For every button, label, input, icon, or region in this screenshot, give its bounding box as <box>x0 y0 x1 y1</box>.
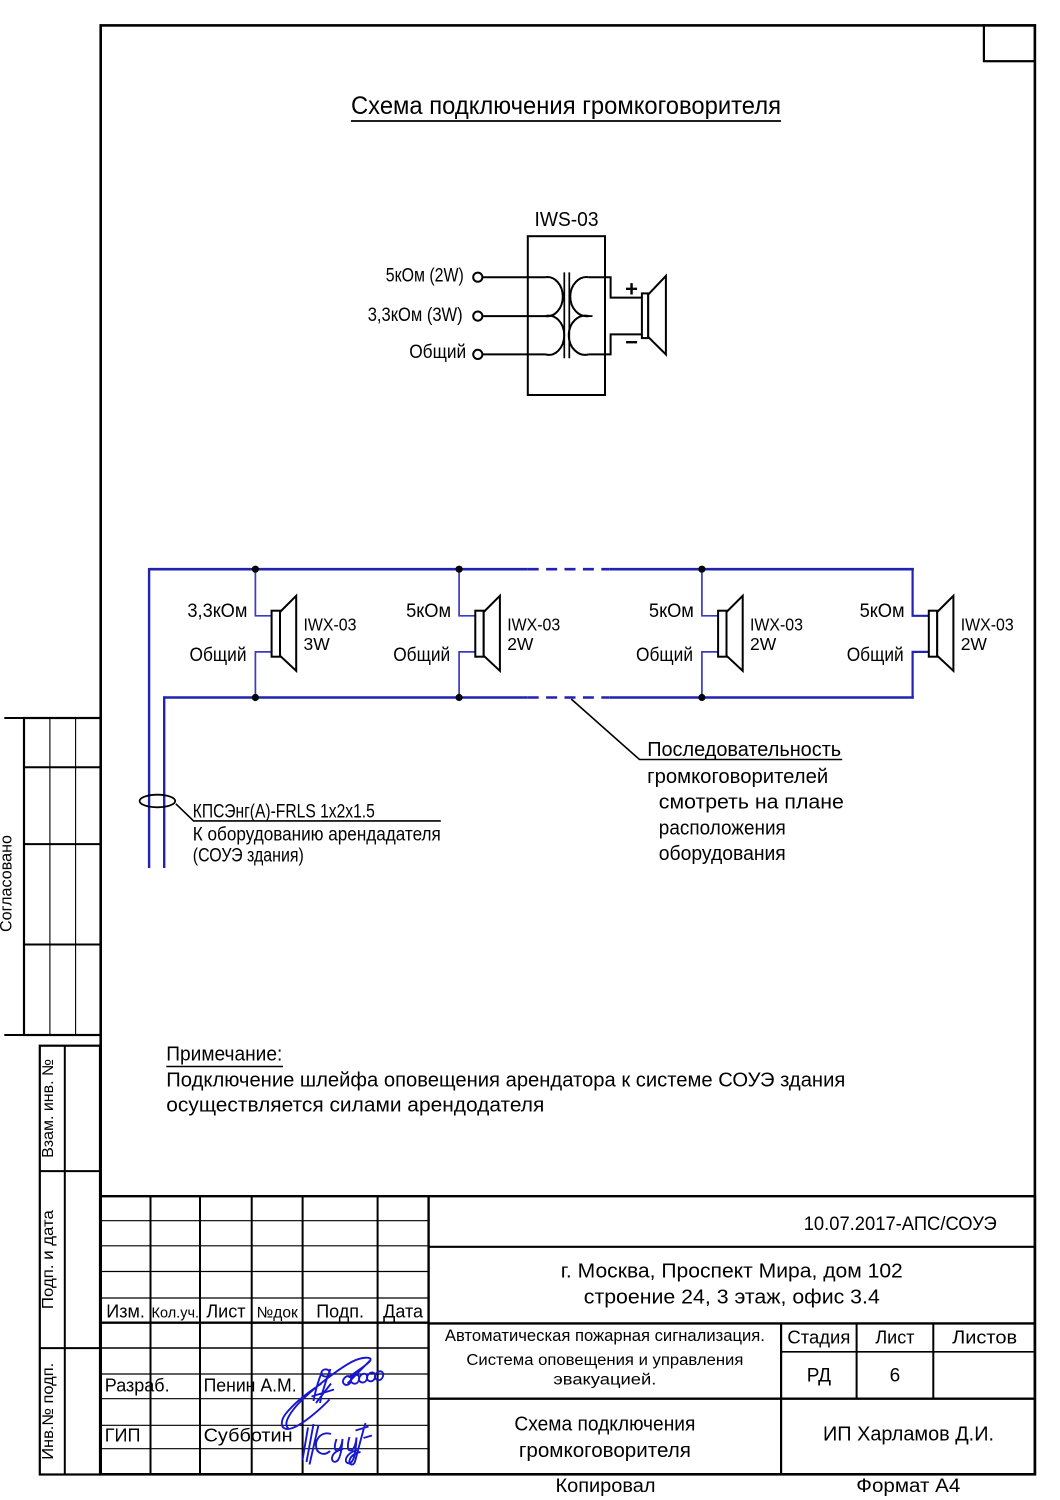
title block right part dividers <box>429 1247 1035 1475</box>
junction node LS2 top <box>456 566 463 573</box>
signature Пенин <box>282 1358 383 1429</box>
svg-text:эвакуацией.: эвакуацией. <box>553 1371 656 1388</box>
title block outer border <box>101 1196 1035 1474</box>
svg-text:IWX-03: IWX-03 <box>507 615 560 635</box>
left margin approval table <box>4 718 100 1035</box>
svg-text:Стадия: Стадия <box>787 1328 850 1348</box>
svg-text:2W: 2W <box>507 634 534 654</box>
wire pin2 to primary winding <box>483 315 546 317</box>
note leader line <box>571 699 842 760</box>
svg-text:5кОм: 5кОм <box>860 601 905 622</box>
svg-text:РД: РД <box>807 1366 831 1387</box>
svg-text:оборудования: оборудования <box>659 843 786 865</box>
bottom bus wire solid left <box>164 696 528 699</box>
svg-text:3W: 3W <box>304 634 331 654</box>
svg-text:2W: 2W <box>961 634 988 654</box>
svg-text:Общий: Общий <box>636 645 693 666</box>
junction node LS3 bottom <box>698 694 705 701</box>
speaker LS1 top drop wire <box>255 569 271 616</box>
speaker LS2 bottom drop wire <box>459 652 475 698</box>
svg-text:Система оповещения и управлени: Система оповещения и управления <box>466 1352 743 1369</box>
svg-text:КПСЭнг(А)-FRLS 1x2x1.5: КПСЭнг(А)-FRLS 1x2x1.5 <box>193 801 375 822</box>
left margin inventory block <box>40 1046 100 1475</box>
transformer secondary winding <box>569 277 589 355</box>
svg-text:Подп. и дата: Подп. и дата <box>40 1210 57 1309</box>
svg-text:6: 6 <box>890 1366 901 1387</box>
svg-text:Подключение шлейфа оповещения: Подключение шлейфа оповещения арендатора… <box>166 1069 845 1092</box>
svg-text:громкоговорителей: громкоговорителей <box>647 766 828 788</box>
svg-text:ГИП: ГИП <box>105 1425 141 1445</box>
signature Субботин <box>303 1423 373 1465</box>
svg-text:Последовательность: Последовательность <box>647 739 841 761</box>
speaker LS2 symbol <box>475 596 500 671</box>
top bus wire dashed <box>528 568 610 571</box>
svg-text:строение 24, 3 этаж, офис 3.4: строение 24, 3 этаж, офис 3.4 <box>584 1287 880 1309</box>
svg-text:5кОм (2W): 5кОм (2W) <box>386 266 464 287</box>
svg-text:Взам. инв. №: Взам. инв. № <box>40 1059 57 1158</box>
svg-text:Подп.: Подп. <box>316 1302 364 1322</box>
secondary center cusp tick <box>586 315 593 317</box>
svg-text:IWX-03: IWX-03 <box>961 615 1014 635</box>
cable marker ellipse <box>140 795 176 808</box>
svg-text:5кОм: 5кОм <box>406 601 451 622</box>
svg-text:Общий: Общий <box>190 645 247 666</box>
transformer core lines <box>563 272 565 358</box>
svg-text:Изм.: Изм. <box>106 1302 145 1322</box>
svg-text:Согласовано: Согласовано <box>0 835 16 932</box>
speaker LS3 symbol <box>718 596 743 671</box>
svg-text:IWX-03: IWX-03 <box>750 615 803 635</box>
speaker LS1 symbol <box>272 596 297 671</box>
wire pin1 to primary winding <box>483 276 546 278</box>
cable leader line <box>176 804 441 821</box>
speaker LS4 bottom drop wire <box>913 652 929 698</box>
svg-text:−: − <box>625 330 638 355</box>
svg-text:+: + <box>625 277 638 302</box>
speaker LS3 top drop wire <box>702 569 718 616</box>
svg-text:5кОм: 5кОм <box>649 601 694 622</box>
svg-text:смотреть на плане: смотреть на плане <box>659 792 844 814</box>
svg-text:ИП Харламов Д.И.: ИП Харламов Д.И. <box>823 1424 994 1446</box>
svg-text:IWS-03: IWS-03 <box>535 208 599 231</box>
svg-text:10.07.2017-АПС/СОУЭ: 10.07.2017-АПС/СОУЭ <box>804 1214 997 1235</box>
svg-text:Листов: Листов <box>952 1328 1017 1348</box>
svg-text:Общий: Общий <box>847 645 904 666</box>
svg-text:Инв.№ подп.: Инв.№ подп. <box>40 1363 57 1460</box>
speaker LS0 magnet rectangle <box>642 293 648 338</box>
svg-text:3,3кОм (3W): 3,3кОм (3W) <box>368 305 463 326</box>
wire pin3 to primary winding <box>483 353 546 355</box>
svg-text:Общий: Общий <box>393 645 450 666</box>
terminal circle pin 3 <box>473 350 482 359</box>
svg-text:Лист: Лист <box>875 1328 914 1348</box>
svg-text:Примечание:: Примечание: <box>166 1043 282 1066</box>
terminal circle pin 1 <box>473 273 482 282</box>
svg-text:г. Москва, Проспект Мира, дом: г. Москва, Проспект Мира, дом 102 <box>561 1261 903 1283</box>
svg-text:Субботин: Субботин <box>204 1425 293 1445</box>
wire secondary bottom to speaker minus <box>589 334 642 354</box>
svg-text:Разраб.: Разраб. <box>105 1376 170 1396</box>
svg-text:Общий: Общий <box>409 342 466 363</box>
bottom bus wire solid right <box>610 696 914 699</box>
title block column lines left part <box>151 1196 429 1474</box>
svg-text:Схема подключения громкоговори: Схема подключения громкоговорителя <box>351 92 781 120</box>
speaker LS2 top drop wire <box>459 569 475 616</box>
title block row lines left part <box>101 1221 429 1449</box>
svg-text:IWX-03: IWX-03 <box>304 615 357 635</box>
svg-text:Дата: Дата <box>383 1302 424 1322</box>
bottom bus wire dashed <box>528 696 610 699</box>
svg-text:Копировал: Копировал <box>556 1476 656 1497</box>
svg-text:осуществляется силами арендода: осуществляется силами арендодателя <box>166 1093 544 1116</box>
speaker LS0 cone <box>648 276 666 355</box>
remark heading underline <box>166 1066 283 1068</box>
svg-text:громкоговорителя: громкоговорителя <box>519 1440 691 1462</box>
bottom-left bus vertical wire <box>163 696 165 868</box>
svg-text:(СОУЭ здания): (СОУЭ здания) <box>193 846 304 867</box>
speaker LS4 top drop wire <box>913 569 929 616</box>
top-right reference box <box>984 25 1035 61</box>
top bus wire solid left <box>149 568 528 571</box>
svg-text:К оборудованию арендадателя: К оборудованию арендадателя <box>193 825 441 846</box>
svg-text:Кол.уч.: Кол.уч. <box>152 1306 200 1322</box>
junction node LS3 top <box>698 566 705 573</box>
drawing title underline <box>351 120 781 122</box>
transformer primary winding <box>545 277 564 355</box>
junction node LS1 top <box>252 566 259 573</box>
svg-text:Лист: Лист <box>206 1302 245 1322</box>
svg-text:№док: №док <box>257 1305 298 1322</box>
top bus wire solid right <box>610 568 914 571</box>
speaker LS4 symbol <box>929 596 954 671</box>
left bus vertical wire <box>148 568 150 868</box>
svg-text:Автоматическая пожарная сигнал: Автоматическая пожарная сигнализация. <box>445 1327 765 1345</box>
speaker LS1 bottom drop wire <box>255 652 271 698</box>
junction node LS1 bottom <box>252 694 259 701</box>
svg-text:расположения: расположения <box>659 817 786 839</box>
wire secondary top to speaker plus <box>589 277 642 297</box>
svg-text:3,3кОм: 3,3кОм <box>187 601 247 622</box>
transformer unit box U1 <box>528 236 605 395</box>
svg-text:Пенин А.М.: Пенин А.М. <box>204 1376 297 1396</box>
terminal circle pin 2 <box>473 312 482 321</box>
svg-text:Формат А4: Формат А4 <box>856 1476 960 1497</box>
svg-text:Схема подключения: Схема подключения <box>514 1413 695 1435</box>
speaker LS3 bottom drop wire <box>702 652 718 698</box>
svg-text:2W: 2W <box>750 634 777 654</box>
junction node LS2 bottom <box>456 694 463 701</box>
